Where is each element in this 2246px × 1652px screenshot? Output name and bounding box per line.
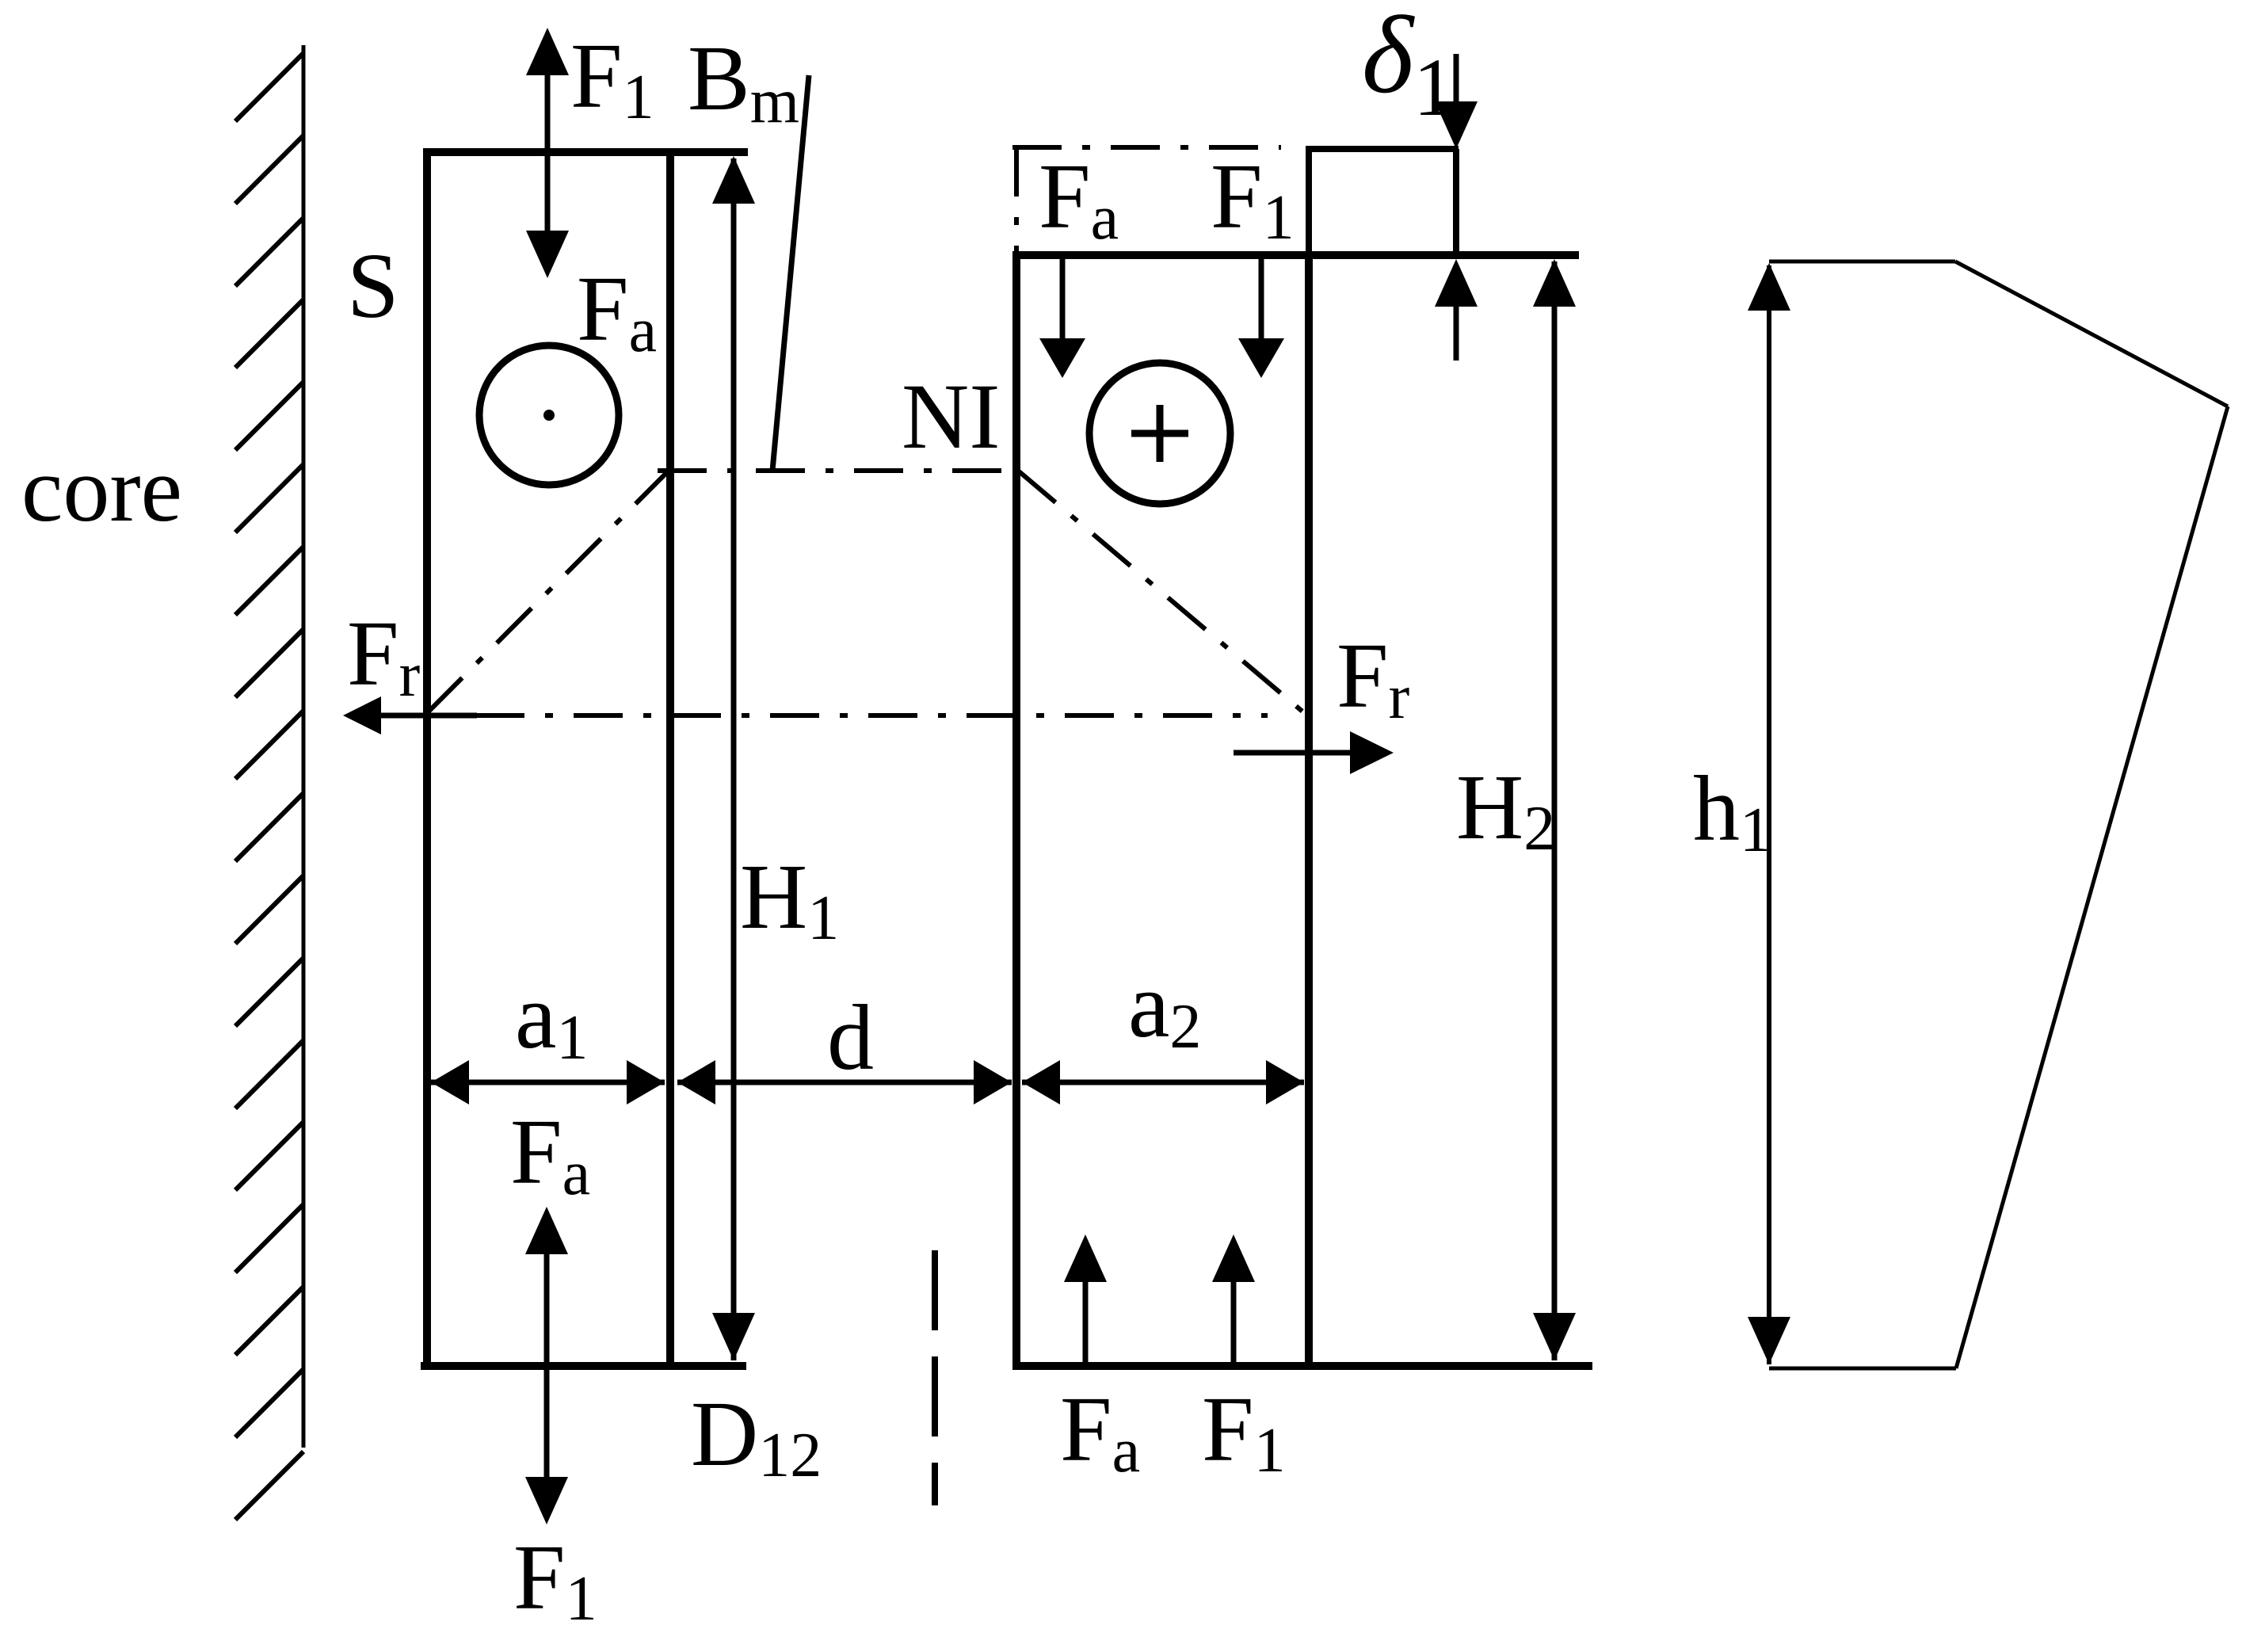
a2 dimension xyxy=(1022,1080,1304,1085)
arrow F1 top double-headed xyxy=(545,63,551,246)
Bm pointer line xyxy=(772,75,809,471)
delta1 dimension arrows xyxy=(1454,54,1459,111)
core wall line xyxy=(302,45,306,1448)
H2 dimension line xyxy=(1552,261,1558,1360)
step outline top right xyxy=(1306,149,1459,255)
Fr dash-dot centerline xyxy=(475,713,1268,718)
current circle winding 2 (cross) xyxy=(1089,363,1230,504)
svg-text:core: core xyxy=(21,437,182,541)
arrow F1 down in winding 2 xyxy=(1259,255,1264,342)
svg-text:d: d xyxy=(827,986,874,1089)
arrow Fr left xyxy=(380,713,477,719)
winding 2 rectangle xyxy=(1015,251,1592,1370)
d dimension xyxy=(677,1080,1012,1085)
svg-text:NI: NI xyxy=(902,364,1001,468)
arrow Fa down in winding 2 xyxy=(1060,255,1066,342)
H1 dimension line xyxy=(731,158,737,1360)
a1 dimension xyxy=(431,1080,665,1085)
dash-dot mirror outline above winding 2 xyxy=(1012,145,1281,150)
current circle winding 1 (dot) xyxy=(479,345,619,485)
arrow Fa up in winding 2 bottom xyxy=(1083,1277,1089,1366)
center dashed line xyxy=(932,1250,938,1505)
arrow Fr right xyxy=(1234,750,1355,756)
arrow Fa up in winding 1 bottom xyxy=(544,1249,550,1366)
diagonal dash-dot right xyxy=(1018,471,1307,715)
h1 dimension line xyxy=(1767,265,1771,1364)
NI dash-dot centerline xyxy=(658,468,1018,473)
svg-text:S: S xyxy=(347,234,399,338)
h1 field diagram trapezoid xyxy=(1769,261,2228,1368)
arrow F1 down below winding 1 xyxy=(544,1366,550,1482)
core wall hatching xyxy=(235,53,303,1520)
diagonal dash-dot left xyxy=(425,469,670,715)
arrow F1 up in winding 2 bottom xyxy=(1231,1277,1237,1366)
winding 1 rectangle xyxy=(421,148,748,1370)
